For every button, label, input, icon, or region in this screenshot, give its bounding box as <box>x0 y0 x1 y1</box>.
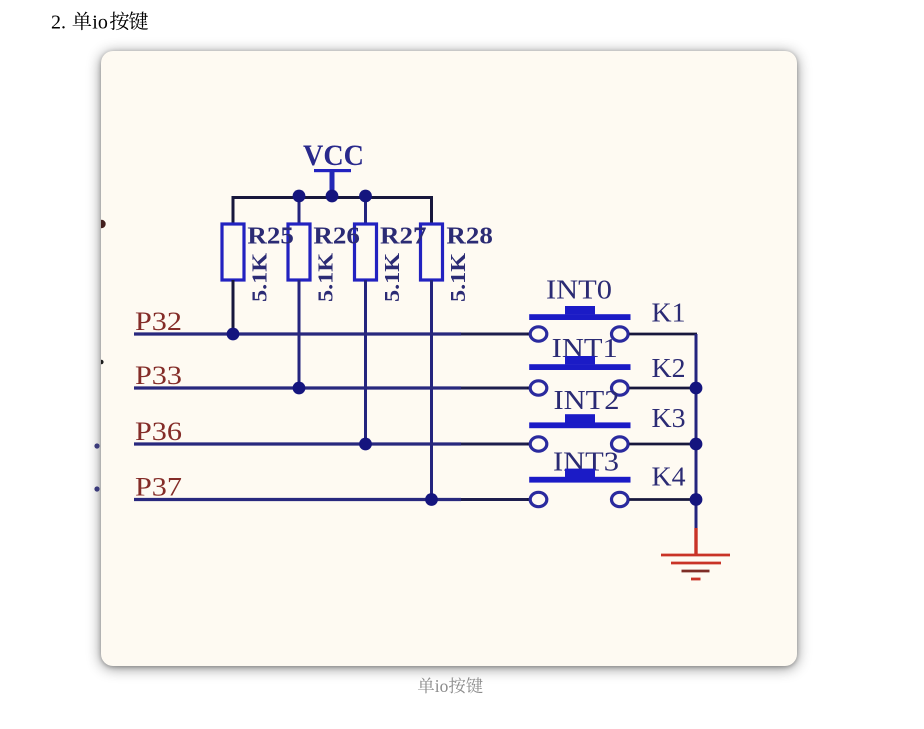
svg-text:io: io <box>435 676 449 696</box>
label R26 <box>313 223 360 250</box>
junction dot bus/R26 <box>293 190 306 203</box>
junction dot P33/R26 <box>293 382 306 395</box>
wire: P33 to K2 left contact <box>527 387 529 390</box>
wire: bus drop to R27 <box>364 196 367 225</box>
heading "2. 单io按键" <box>0 0 170 40</box>
label K3 <box>652 402 686 433</box>
wire: R26 to P33 row <box>298 280 301 388</box>
junction dot rail/K4 <box>690 493 703 506</box>
pushbutton K4 left contact <box>530 492 547 506</box>
svg-text:P36: P36 <box>135 416 182 446</box>
svg-text:2.: 2. <box>51 12 66 34</box>
wire: R28 to P37 row <box>430 280 433 500</box>
clipped dark artifact at card left edge <box>99 360 104 365</box>
wire: P37 to K4 left contact <box>527 498 529 501</box>
svg-text:5.1K: 5.1K <box>446 253 470 302</box>
pushbutton K1 right contact <box>612 327 629 341</box>
pushbutton K1 actuator <box>565 306 595 314</box>
junction dot P32/R25 <box>227 328 240 341</box>
svg-text:P33: P33 <box>135 360 182 390</box>
pushbutton K1 left contact <box>530 327 547 341</box>
wire: net P32 row <box>134 332 532 335</box>
wire: bus drop to R26 <box>298 196 301 225</box>
label INT3 <box>553 447 619 477</box>
value 5.1K of R27 <box>380 253 404 302</box>
pushbutton K2 bar <box>529 364 630 370</box>
wire: net P37 row <box>134 498 532 501</box>
wire: K2 right contact to ground rail <box>629 387 697 390</box>
svg-text:P32: P32 <box>135 306 182 336</box>
wire: net P33 row <box>134 386 532 389</box>
resistor R27 body <box>355 224 377 280</box>
wire: R27 to P36 row <box>364 280 367 444</box>
label P33 <box>135 360 182 390</box>
clipped red artifact at card left edge <box>97 220 105 228</box>
resistor R25 body <box>222 224 244 280</box>
wire: P36 to K3 left contact <box>527 443 529 446</box>
label K4 <box>652 461 686 492</box>
wire: R25 to P32 row <box>232 280 235 334</box>
svg-text:K4: K4 <box>652 461 686 492</box>
wire: P32 to K1 left contact <box>527 333 529 336</box>
wire: ground rail vertical <box>695 334 698 528</box>
pushbutton K2 left contact <box>530 381 547 395</box>
svg-text:K1: K1 <box>652 297 686 328</box>
wire: VCC stub down to bus <box>330 171 335 197</box>
svg-text:VCC: VCC <box>303 139 364 172</box>
pushbutton K1 bar <box>529 314 630 320</box>
junction dot rail/K2 <box>690 382 703 395</box>
pushbutton K3 actuator <box>565 414 595 422</box>
pushbutton K2 right contact <box>612 381 629 395</box>
svg-text:INT0: INT0 <box>546 275 612 305</box>
pushbutton K3 left contact <box>530 437 547 451</box>
pushbutton K4 right contact <box>612 492 629 506</box>
junction dot bus/VCC <box>326 190 339 203</box>
label K2 <box>652 352 686 383</box>
label P37 <box>135 472 182 502</box>
svg-text:P37: P37 <box>135 472 182 502</box>
svg-text:5.1K: 5.1K <box>380 253 404 302</box>
junction dot rail/K3 <box>690 438 703 451</box>
label INT1 <box>552 333 618 363</box>
wire: top bus from R25 to R28 <box>233 198 432 226</box>
svg-text:R26: R26 <box>313 223 360 250</box>
label INT0 <box>546 275 612 305</box>
image card <box>101 51 797 666</box>
label R27 <box>380 223 427 250</box>
svg-text:5.1K: 5.1K <box>248 253 272 302</box>
svg-text:R28: R28 <box>446 223 493 250</box>
wire: K1 right contact to ground rail <box>629 333 697 336</box>
resistor R26 body <box>288 224 310 280</box>
pushbutton K4 bar <box>529 477 630 483</box>
junction dot P37/R28 <box>425 493 438 506</box>
svg-text:K3: K3 <box>652 402 686 433</box>
junction dot P36/R27 <box>359 438 372 451</box>
pushbutton K4 actuator <box>565 469 595 477</box>
label INT2 <box>554 385 620 415</box>
label K1 <box>652 297 686 328</box>
value 5.1K of R28 <box>446 253 470 302</box>
ground stub (red) <box>694 528 697 555</box>
caption "单io按键" <box>405 670 525 700</box>
svg-text:5.1K: 5.1K <box>314 253 338 302</box>
wire: K3 right contact to ground rail <box>629 443 697 446</box>
wire: net P36 row <box>134 442 532 445</box>
label R28 <box>446 223 493 250</box>
junction dot bus/R27 <box>359 190 372 203</box>
wire: K4 right contact to ground rail <box>629 498 697 501</box>
resistor R28 body <box>421 224 443 280</box>
svg-text:K2: K2 <box>652 352 686 383</box>
ground symbol <box>661 555 730 579</box>
value 5.1K of R25 <box>248 253 272 302</box>
svg-text:R25: R25 <box>247 223 294 250</box>
stray mark left of card (scan artifact) <box>88 400 108 520</box>
svg-text:io: io <box>92 12 108 34</box>
pushbutton K2 actuator <box>565 356 595 364</box>
pushbutton K3 right contact <box>612 437 629 451</box>
VCC power bar symbol <box>314 169 351 172</box>
svg-text:INT2: INT2 <box>554 385 620 415</box>
VCC label <box>303 139 364 172</box>
label P32 <box>135 306 182 336</box>
value 5.1K of R26 <box>314 253 338 302</box>
pushbutton K3 bar <box>529 422 630 428</box>
svg-text:R27: R27 <box>380 223 427 250</box>
label R25 <box>247 223 294 250</box>
label P36 <box>135 416 182 446</box>
